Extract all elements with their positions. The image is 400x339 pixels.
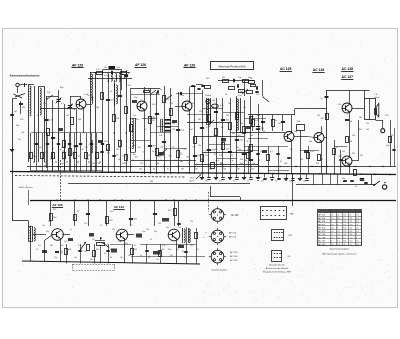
svg-text:100: 100 bbox=[92, 163, 95, 165]
svg-text:0,25: 0,25 bbox=[104, 141, 108, 143]
svg-text:0,25: 0,25 bbox=[219, 155, 223, 157]
svg-text:10k: 10k bbox=[193, 146, 196, 148]
svg-text:220: 220 bbox=[48, 221, 51, 223]
svg-text:6k8: 6k8 bbox=[200, 159, 203, 161]
svg-text:10k: 10k bbox=[74, 257, 77, 259]
svg-text:8,2: 8,2 bbox=[355, 186, 358, 188]
svg-text:2k2: 2k2 bbox=[170, 255, 173, 257]
svg-text:220: 220 bbox=[199, 111, 202, 113]
svg-text:2k2: 2k2 bbox=[129, 148, 132, 150]
svg-text:AF 126: AF 126 bbox=[184, 63, 195, 67]
svg-text:4n7: 4n7 bbox=[190, 129, 193, 131]
svg-text:4n7: 4n7 bbox=[226, 149, 229, 151]
svg-text:12k: 12k bbox=[172, 146, 175, 148]
svg-text:8: 8 bbox=[356, 234, 357, 236]
svg-text:100: 100 bbox=[284, 163, 287, 165]
svg-text:50: 50 bbox=[142, 151, 144, 153]
svg-text:220: 220 bbox=[84, 251, 87, 253]
svg-text:Minerva-Perfect 642: Minerva-Perfect 642 bbox=[218, 64, 245, 68]
svg-text:5n: 5n bbox=[184, 257, 186, 259]
svg-text:100: 100 bbox=[43, 103, 46, 105]
svg-text:6k8: 6k8 bbox=[118, 147, 121, 149]
svg-text:0,5p: 0,5p bbox=[220, 105, 224, 107]
svg-text:0,5p: 0,5p bbox=[162, 245, 165, 247]
svg-text:15n: 15n bbox=[226, 115, 229, 117]
svg-text:8,2: 8,2 bbox=[221, 127, 224, 129]
svg-text:4n7: 4n7 bbox=[107, 153, 110, 155]
svg-text:220: 220 bbox=[85, 147, 88, 149]
svg-text:0,1: 0,1 bbox=[275, 181, 277, 183]
svg-text:15n: 15n bbox=[228, 103, 231, 105]
svg-text:2,4: 2,4 bbox=[337, 244, 340, 246]
svg-text:12k: 12k bbox=[172, 129, 175, 131]
svg-text:30p: 30p bbox=[309, 141, 312, 143]
svg-text:0,1: 0,1 bbox=[36, 149, 39, 151]
svg-text:6k8: 6k8 bbox=[349, 121, 352, 123]
svg-text:0,1: 0,1 bbox=[179, 153, 181, 155]
svg-text:0,25: 0,25 bbox=[64, 241, 67, 243]
svg-text:30p: 30p bbox=[289, 181, 292, 183]
svg-text:47k: 47k bbox=[125, 243, 128, 245]
svg-text:50: 50 bbox=[192, 103, 194, 105]
svg-text:0,1: 0,1 bbox=[36, 249, 38, 251]
svg-text:2k2: 2k2 bbox=[120, 73, 123, 75]
svg-text:30p: 30p bbox=[33, 156, 36, 158]
svg-text:47k: 47k bbox=[96, 249, 99, 251]
svg-text:47k: 47k bbox=[62, 151, 65, 153]
svg-text:5n: 5n bbox=[70, 229, 72, 231]
svg-text:8: 8 bbox=[337, 221, 338, 223]
svg-text:Bananenstecker: Bananenstecker bbox=[269, 263, 285, 266]
svg-text:12k: 12k bbox=[316, 163, 319, 165]
svg-text:10k: 10k bbox=[116, 154, 119, 156]
svg-text:5n: 5n bbox=[95, 147, 97, 149]
svg-text:8,2: 8,2 bbox=[238, 135, 241, 137]
svg-text:30p: 30p bbox=[342, 178, 345, 180]
svg-text:500: 500 bbox=[188, 160, 191, 162]
svg-text:500: 500 bbox=[359, 117, 362, 119]
svg-text:50: 50 bbox=[50, 156, 52, 158]
svg-text:MB: MB bbox=[290, 214, 294, 216]
svg-text:0,5p: 0,5p bbox=[122, 156, 125, 158]
svg-text:5n: 5n bbox=[188, 163, 190, 165]
svg-text:30p: 30p bbox=[154, 231, 157, 233]
svg-text:AF 126: AF 126 bbox=[135, 63, 146, 67]
svg-text:10k: 10k bbox=[297, 121, 300, 123]
svg-text:25: 25 bbox=[205, 150, 207, 152]
svg-text:8,2: 8,2 bbox=[130, 225, 132, 227]
svg-text:220: 220 bbox=[321, 118, 324, 120]
svg-text:6,3: 6,3 bbox=[356, 221, 359, 223]
svg-text:6k8: 6k8 bbox=[50, 245, 53, 247]
svg-text:Spannungsangaben: Spannungsangaben bbox=[330, 248, 350, 250]
svg-text:15n: 15n bbox=[124, 163, 127, 165]
svg-text:8: 8 bbox=[331, 221, 332, 223]
svg-text:AC 126: AC 126 bbox=[313, 68, 325, 72]
svg-text:8,2: 8,2 bbox=[233, 181, 235, 183]
svg-text:50: 50 bbox=[162, 249, 164, 251]
svg-text:4n7: 4n7 bbox=[216, 160, 219, 162]
svg-text:47k: 47k bbox=[219, 181, 222, 183]
svg-text:0,5p: 0,5p bbox=[160, 146, 163, 148]
svg-text:220: 220 bbox=[176, 249, 179, 251]
svg-text:10k: 10k bbox=[212, 100, 215, 102]
svg-text:0,5p: 0,5p bbox=[54, 257, 57, 259]
svg-text:-4: -4 bbox=[343, 244, 345, 246]
svg-text:0,5p: 0,5p bbox=[70, 154, 73, 156]
svg-text:100: 100 bbox=[146, 229, 149, 231]
svg-text:0,1: 0,1 bbox=[104, 253, 106, 255]
svg-text:5n: 5n bbox=[160, 89, 162, 91]
svg-text:100: 100 bbox=[348, 163, 351, 165]
svg-text:220: 220 bbox=[39, 147, 42, 149]
svg-text:0,25: 0,25 bbox=[255, 120, 259, 122]
svg-text:8,2: 8,2 bbox=[144, 129, 147, 131]
svg-text:500: 500 bbox=[60, 245, 63, 247]
svg-text:30p: 30p bbox=[168, 249, 171, 251]
svg-text:AF 106: AF 106 bbox=[231, 214, 239, 217]
svg-text:500: 500 bbox=[261, 181, 264, 183]
svg-text:0,25: 0,25 bbox=[104, 75, 108, 77]
svg-text:500: 500 bbox=[214, 149, 217, 151]
svg-text:220 V~: 220 V~ bbox=[189, 180, 196, 182]
svg-text:2,4: 2,4 bbox=[337, 234, 340, 236]
svg-text:50: 50 bbox=[110, 91, 112, 93]
svg-text:2k2: 2k2 bbox=[317, 115, 320, 117]
svg-text:500: 500 bbox=[135, 156, 138, 158]
svg-text:50: 50 bbox=[263, 131, 265, 133]
svg-text:AC 128: AC 128 bbox=[318, 236, 326, 239]
svg-text:50: 50 bbox=[150, 239, 152, 241]
svg-text:50: 50 bbox=[280, 161, 282, 163]
svg-text:100: 100 bbox=[244, 160, 247, 162]
svg-text:50: 50 bbox=[37, 115, 39, 117]
svg-text:30p: 30p bbox=[156, 163, 159, 165]
svg-text:10k: 10k bbox=[222, 77, 225, 79]
svg-text:2k2: 2k2 bbox=[86, 159, 89, 161]
svg-text:100: 100 bbox=[352, 135, 355, 137]
svg-text:Sockelansichten: Sockelansichten bbox=[212, 268, 229, 271]
svg-text:50: 50 bbox=[231, 154, 233, 156]
svg-text:3k3: 3k3 bbox=[232, 133, 235, 135]
svg-text:2,4: 2,4 bbox=[350, 234, 353, 236]
svg-text:15n: 15n bbox=[198, 145, 201, 147]
svg-text:30p: 30p bbox=[46, 231, 49, 233]
svg-text:6,3: 6,3 bbox=[356, 244, 359, 246]
svg-text:15n: 15n bbox=[78, 155, 81, 157]
svg-text:10k: 10k bbox=[226, 120, 229, 122]
svg-text:12k: 12k bbox=[104, 67, 107, 69]
svg-text:100: 100 bbox=[166, 227, 169, 229]
svg-text:-4: -4 bbox=[331, 234, 333, 236]
svg-text:8,2: 8,2 bbox=[247, 141, 250, 143]
svg-text:12k: 12k bbox=[238, 149, 241, 151]
svg-text:AF 105: AF 105 bbox=[318, 223, 326, 226]
svg-text:0,2: 0,2 bbox=[343, 221, 346, 223]
svg-text:47k: 47k bbox=[241, 152, 244, 154]
svg-text:0,5p: 0,5p bbox=[238, 95, 242, 97]
svg-text:0,1: 0,1 bbox=[249, 153, 251, 155]
svg-text:3k3: 3k3 bbox=[169, 155, 172, 157]
svg-text:AF 122: AF 122 bbox=[318, 227, 326, 230]
svg-text:30p: 30p bbox=[294, 131, 297, 133]
svg-text:6k8: 6k8 bbox=[198, 155, 201, 157]
svg-text:25: 25 bbox=[50, 159, 52, 161]
svg-text:100: 100 bbox=[342, 151, 345, 153]
svg-text:AF 125: AF 125 bbox=[318, 214, 326, 217]
svg-text:1M: 1M bbox=[72, 109, 75, 111]
svg-text:Netz: Netz bbox=[190, 177, 194, 180]
svg-text:0,5p: 0,5p bbox=[238, 77, 242, 79]
svg-text:6k8: 6k8 bbox=[257, 115, 260, 117]
svg-text:30p: 30p bbox=[74, 147, 77, 149]
svg-text:10k: 10k bbox=[159, 135, 162, 137]
svg-text:0,5p: 0,5p bbox=[247, 150, 250, 152]
svg-text:4n7: 4n7 bbox=[128, 85, 131, 87]
svg-text:0,5p: 0,5p bbox=[386, 145, 390, 147]
svg-text:220: 220 bbox=[240, 159, 243, 161]
svg-text:0,5p: 0,5p bbox=[118, 241, 121, 243]
svg-text:100: 100 bbox=[223, 169, 226, 171]
svg-text:6k8: 6k8 bbox=[186, 157, 189, 159]
svg-text:50: 50 bbox=[98, 163, 100, 165]
svg-text:10k: 10k bbox=[158, 223, 161, 225]
svg-text:15n: 15n bbox=[223, 152, 226, 154]
svg-text:500: 500 bbox=[220, 163, 223, 165]
svg-text:2k2: 2k2 bbox=[205, 155, 208, 157]
svg-text:0,1: 0,1 bbox=[148, 89, 151, 91]
svg-text:1M: 1M bbox=[44, 165, 47, 167]
svg-text:12k: 12k bbox=[170, 103, 173, 105]
svg-text:25: 25 bbox=[258, 160, 260, 162]
svg-text:0,5p: 0,5p bbox=[60, 163, 64, 165]
svg-text:AC 128: AC 128 bbox=[342, 67, 354, 71]
svg-text:-4: -4 bbox=[350, 244, 352, 246]
svg-text:6k8: 6k8 bbox=[208, 95, 211, 97]
svg-text:25: 25 bbox=[52, 148, 54, 150]
svg-text:25: 25 bbox=[132, 160, 134, 162]
svg-text:0,1: 0,1 bbox=[167, 169, 170, 171]
svg-text:100: 100 bbox=[206, 78, 209, 80]
svg-text:50: 50 bbox=[153, 169, 155, 171]
svg-text:Alle Spannungen gegen + gemess: Alle Spannungen gegen + gemessen bbox=[322, 252, 357, 255]
svg-text:AF 125: AF 125 bbox=[72, 63, 83, 67]
svg-text:50: 50 bbox=[160, 160, 162, 162]
svg-text:1M: 1M bbox=[290, 149, 293, 151]
svg-text:0,25: 0,25 bbox=[256, 94, 260, 96]
svg-text:100: 100 bbox=[190, 245, 193, 247]
svg-text:0,25: 0,25 bbox=[84, 223, 87, 225]
svg-text:AC 125: AC 125 bbox=[230, 251, 238, 254]
svg-text:0,1: 0,1 bbox=[134, 245, 136, 247]
svg-text:30p: 30p bbox=[137, 147, 140, 149]
svg-text:30p: 30p bbox=[182, 251, 185, 253]
svg-text:1M: 1M bbox=[198, 119, 201, 121]
svg-text:6k8: 6k8 bbox=[60, 251, 63, 253]
svg-text:15n: 15n bbox=[42, 225, 45, 227]
svg-text:12k: 12k bbox=[152, 151, 155, 153]
svg-text:0,5p: 0,5p bbox=[45, 152, 48, 154]
svg-text:AF 121: AF 121 bbox=[229, 232, 237, 235]
svg-text:AF 122: AF 122 bbox=[114, 205, 124, 209]
svg-text:5n: 5n bbox=[321, 98, 323, 100]
svg-text:220: 220 bbox=[190, 221, 193, 223]
svg-text:0,25: 0,25 bbox=[61, 147, 64, 149]
svg-text:2k2: 2k2 bbox=[116, 149, 119, 151]
svg-text:0,25: 0,25 bbox=[80, 149, 84, 151]
svg-text:AC 127: AC 127 bbox=[342, 75, 354, 79]
svg-text:AC 126: AC 126 bbox=[318, 233, 326, 236]
svg-text:10k: 10k bbox=[251, 169, 254, 171]
svg-text:10k: 10k bbox=[338, 104, 341, 106]
svg-text:220: 220 bbox=[214, 154, 217, 156]
svg-text:220: 220 bbox=[140, 163, 143, 165]
svg-text:100: 100 bbox=[90, 259, 93, 261]
svg-text:15n: 15n bbox=[18, 139, 21, 141]
svg-text:AF 105: AF 105 bbox=[52, 203, 62, 207]
svg-text:0,25: 0,25 bbox=[340, 163, 344, 165]
svg-text:0,5p: 0,5p bbox=[88, 95, 92, 97]
svg-text:AC 126: AC 126 bbox=[230, 255, 238, 258]
svg-text:500: 500 bbox=[178, 227, 181, 229]
svg-text:4ohm: 4ohm bbox=[374, 97, 379, 99]
svg-text:5n: 5n bbox=[225, 94, 227, 96]
svg-text:47k: 47k bbox=[136, 119, 139, 121]
svg-text:10k: 10k bbox=[38, 245, 41, 247]
svg-text:3k3: 3k3 bbox=[349, 141, 352, 143]
svg-text:Ansicht von der Oberteil: Ansicht von der Oberteil bbox=[266, 267, 289, 270]
svg-text:50: 50 bbox=[148, 257, 150, 259]
svg-text:100: 100 bbox=[300, 159, 303, 161]
svg-text:Eingezeichnete Stellung : MW: Eingezeichnete Stellung : MW bbox=[263, 270, 291, 273]
svg-text:2k2: 2k2 bbox=[240, 91, 243, 93]
svg-text:2k2: 2k2 bbox=[366, 129, 369, 131]
svg-text:3k3: 3k3 bbox=[180, 161, 183, 163]
svg-text:0,1: 0,1 bbox=[270, 151, 273, 153]
svg-text:2k2: 2k2 bbox=[213, 135, 216, 137]
svg-text:10k: 10k bbox=[240, 140, 243, 142]
svg-text:UKW - Buchse: UKW - Buchse bbox=[19, 187, 34, 189]
svg-text:2k2: 2k2 bbox=[360, 155, 363, 157]
svg-text:3k3: 3k3 bbox=[320, 159, 323, 161]
svg-text:AC 125: AC 125 bbox=[280, 67, 292, 71]
svg-text:0,1: 0,1 bbox=[100, 225, 102, 227]
svg-text:220: 220 bbox=[181, 95, 184, 97]
svg-text:50: 50 bbox=[110, 257, 112, 259]
svg-text:0,1: 0,1 bbox=[106, 245, 108, 247]
svg-text:50: 50 bbox=[140, 255, 142, 257]
svg-text:3k3: 3k3 bbox=[134, 249, 137, 251]
svg-text:6k8: 6k8 bbox=[78, 119, 81, 121]
svg-text:1M: 1M bbox=[116, 118, 119, 120]
svg-text:12k: 12k bbox=[366, 123, 369, 125]
svg-text:6k8: 6k8 bbox=[150, 181, 153, 183]
svg-text:5n: 5n bbox=[275, 120, 277, 122]
svg-text:30p: 30p bbox=[96, 107, 99, 109]
svg-text:0,5p: 0,5p bbox=[183, 148, 186, 150]
svg-text:2k2: 2k2 bbox=[66, 115, 69, 117]
svg-text:0,25: 0,25 bbox=[62, 159, 66, 161]
svg-text:Antennenanschlussbuchse: Antennenanschlussbuchse bbox=[10, 75, 41, 78]
svg-text:25: 25 bbox=[336, 147, 338, 149]
svg-text:0,1: 0,1 bbox=[159, 156, 161, 158]
svg-text:30p: 30p bbox=[240, 163, 243, 165]
svg-text:4n7: 4n7 bbox=[14, 111, 17, 113]
svg-text:AF 126: AF 126 bbox=[318, 220, 326, 223]
svg-text:6k8: 6k8 bbox=[118, 159, 121, 161]
svg-text:2k2: 2k2 bbox=[303, 181, 306, 183]
svg-text:AC 132: AC 132 bbox=[318, 243, 326, 246]
svg-text:AC 128: AC 128 bbox=[230, 259, 238, 262]
svg-text:6k8: 6k8 bbox=[68, 249, 71, 251]
svg-text:8,2: 8,2 bbox=[150, 146, 152, 148]
svg-text:0,1: 0,1 bbox=[206, 127, 209, 129]
svg-text:30p: 30p bbox=[16, 125, 19, 127]
svg-text:0,9: 0,9 bbox=[343, 234, 346, 236]
svg-text:12k: 12k bbox=[21, 132, 24, 134]
svg-text:0,1: 0,1 bbox=[146, 160, 149, 162]
svg-text:10k: 10k bbox=[146, 251, 149, 253]
svg-text:100: 100 bbox=[174, 160, 177, 162]
svg-text:0,5p: 0,5p bbox=[230, 160, 234, 162]
svg-text:47k: 47k bbox=[60, 253, 63, 255]
svg-text:10k: 10k bbox=[134, 219, 137, 221]
svg-text:15n: 15n bbox=[252, 163, 255, 165]
svg-text:2k2: 2k2 bbox=[92, 239, 95, 241]
svg-text:10k: 10k bbox=[133, 115, 136, 117]
svg-text:12k: 12k bbox=[156, 259, 159, 261]
svg-text:47k: 47k bbox=[352, 153, 355, 155]
svg-text:0,25: 0,25 bbox=[310, 151, 314, 153]
svg-text:15n: 15n bbox=[243, 107, 246, 109]
svg-text:0,5p: 0,5p bbox=[142, 231, 145, 233]
svg-text:6k8: 6k8 bbox=[250, 135, 253, 137]
svg-text:12: 12 bbox=[350, 221, 352, 223]
svg-text:2,4: 2,4 bbox=[331, 244, 334, 246]
svg-text:15n: 15n bbox=[112, 229, 115, 231]
svg-text:25: 25 bbox=[97, 152, 99, 154]
svg-text:AF 125: AF 125 bbox=[229, 236, 237, 239]
svg-text:4n7: 4n7 bbox=[196, 249, 199, 251]
svg-text:10k: 10k bbox=[139, 169, 142, 171]
svg-text:10k: 10k bbox=[152, 117, 155, 119]
svg-text:30p: 30p bbox=[209, 169, 212, 171]
svg-text:47k: 47k bbox=[53, 209, 56, 211]
svg-text:0,5p: 0,5p bbox=[78, 245, 81, 247]
svg-text:1M: 1M bbox=[152, 120, 155, 122]
svg-text:5n: 5n bbox=[247, 181, 249, 183]
